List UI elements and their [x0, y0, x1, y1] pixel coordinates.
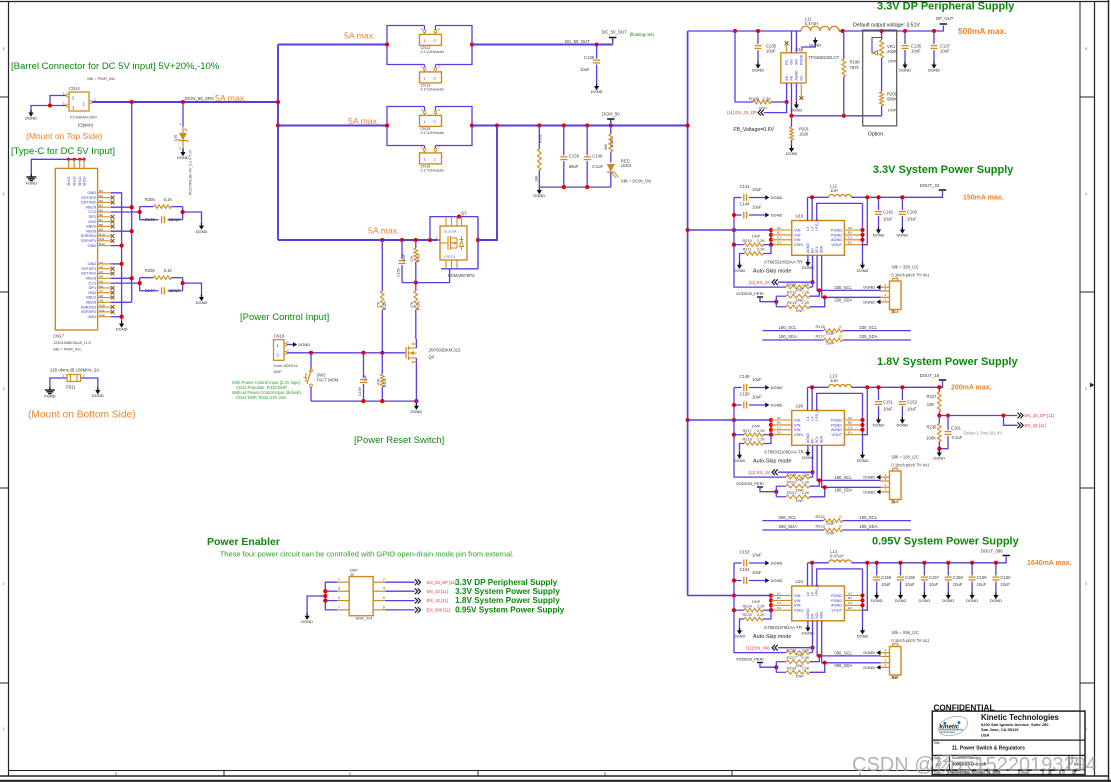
- wire LX risers: [808, 563, 813, 586]
- svg-text:0.1inch pitch TH 4x1: 0.1inch pitch TH 4x1: [891, 638, 930, 643]
- svg-text:180_SCL: 180_SCL: [779, 325, 798, 330]
- ground DGND at Q4: [414, 406, 419, 410]
- ground DGND at C156: [898, 595, 903, 599]
- svg-text:0.47uH: 0.47uH: [805, 21, 819, 26]
- ground DGND at J10 pin1: [876, 665, 880, 670]
- junction: [769, 593, 773, 597]
- junction: [595, 42, 599, 46]
- capacitor C161: [939, 416, 962, 449]
- svg-text:D1: D1: [777, 606, 781, 610]
- capacitor C158: [945, 563, 964, 595]
- svg-text:0.47uH: 0.47uH: [830, 554, 844, 559]
- junction: [865, 385, 869, 389]
- wire header bracket bottom: [387, 126, 472, 146]
- wire AGND pin down: [807, 621, 809, 628]
- junction: [860, 603, 864, 607]
- resistor R212: [776, 290, 819, 303]
- ground DGND at C155: [874, 595, 879, 599]
- svg-text:DGND: DGND: [734, 634, 746, 639]
- svg-text:DGND: DGND: [752, 68, 764, 73]
- svg-text:6200 San Ignacio Avenue, Suite: 6200 San Ignacio Avenue, Suite 250: [981, 722, 1049, 727]
- resistor R228: [776, 663, 824, 679]
- connector CN18: [274, 333, 298, 374]
- ground DGND under R225: [737, 630, 742, 634]
- junction: [732, 608, 736, 612]
- svg-text:2: 2: [383, 578, 385, 582]
- wire J9 output row 1: [386, 581, 415, 583]
- svg-text:3: 3: [885, 287, 887, 291]
- svg-text:1: 1: [885, 488, 887, 492]
- svg-text:EN_33 [11]: EN_33 [11]: [1025, 423, 1046, 428]
- svg-text:DNP: DNP: [752, 233, 761, 238]
- capacitor C150: [734, 392, 765, 409]
- ground DGND at J10 pin4: [876, 650, 880, 655]
- header CN16: [420, 145, 445, 172]
- wire header bracket bottom: [387, 45, 472, 65]
- svg-text:C3: C3: [848, 426, 852, 430]
- svg-text:1uF: 1uF: [363, 374, 367, 381]
- wire EN port to riser: [778, 647, 813, 649]
- svg-text:330_SDA: 330_SDA: [834, 298, 852, 303]
- svg-text:DNP: DNP: [796, 674, 805, 679]
- junction: [585, 123, 589, 127]
- svg-text:VIN: VIN: [790, 59, 794, 65]
- junction: [414, 281, 418, 285]
- svg-text:DP_OUT: DP_OUT: [936, 16, 954, 21]
- capacitor C136: [902, 31, 922, 65]
- svg-text:J10: J10: [891, 675, 898, 680]
- svg-text:10uF: 10uF: [766, 49, 776, 54]
- header J7: [881, 278, 902, 314]
- sheet border right outer: [1094, 2, 1096, 777]
- port EN_33 out: [1017, 422, 1020, 428]
- junction: [823, 661, 827, 665]
- svg-text:2: 2: [179, 147, 181, 151]
- svg-text:10uF: 10uF: [881, 582, 891, 587]
- resistor R199: [749, 96, 787, 110]
- svg-text:C138: C138: [584, 55, 595, 60]
- wire VIN pin tie: [770, 420, 772, 435]
- svg-text:5A max.: 5A max.: [215, 93, 246, 103]
- svg-text:10uF: 10uF: [752, 570, 762, 575]
- wire cap bank ground rail: [539, 186, 611, 188]
- svg-text:DGND: DGND: [942, 598, 954, 603]
- svg-text:4: 4: [1085, 192, 1087, 196]
- svg-text:These four power circuit can b: These four power circuit can be controll…: [220, 550, 514, 559]
- wire to DC_50_OUT tie: [612, 39, 614, 45]
- junction: [900, 385, 904, 389]
- resistor R210: [734, 233, 771, 246]
- junction: [860, 228, 864, 232]
- svg-text:[Power Reset Switch]: [Power Reset Switch]: [354, 435, 444, 446]
- wire net link 180_SDA to 330_SDA: [762, 333, 911, 345]
- svg-text:5: 5: [3, 47, 5, 51]
- junction: [860, 238, 864, 242]
- resistor R220: [776, 480, 819, 493]
- sheet border bottom edge: [0, 780, 1111, 782]
- net tie DCIN_50: [607, 118, 614, 120]
- ground DGND at C149: [765, 385, 769, 390]
- svg-text:R223: R223: [816, 523, 825, 528]
- svg-text:200K: 200K: [887, 49, 897, 54]
- svg-text:330_SCL: 330_SCL: [834, 285, 852, 290]
- svg-text:330_SDA: 330_SDA: [859, 334, 878, 339]
- svg-text:DGND: DGND: [177, 155, 189, 160]
- svg-text:Q4: Q4: [429, 355, 435, 360]
- svg-text:KT88331H6DAA-TR: KT88331H6DAA-TR: [764, 259, 802, 264]
- wire left bus: [734, 198, 786, 288]
- junction: [385, 123, 389, 127]
- svg-text:10uF: 10uF: [752, 394, 762, 399]
- resistor R227: [776, 655, 819, 668]
- port EN output 3: [415, 598, 418, 604]
- header CN13: [420, 64, 445, 91]
- svg-text:A1: A1: [777, 226, 781, 230]
- svg-text:C1: C1: [777, 601, 781, 605]
- right border arrow mark: [1090, 383, 1095, 388]
- svg-text:FB11: FB11: [66, 385, 76, 390]
- junction: [769, 423, 773, 427]
- wire FB net: [792, 115, 882, 117]
- svg-text:150mA max.: 150mA max.: [963, 195, 1004, 202]
- capacitor C151: [875, 387, 894, 419]
- pin names SHLD: [67, 176, 86, 186]
- ground DGND at CN14: [28, 113, 33, 117]
- wire bus1 left: [278, 44, 387, 46]
- svg-text:EN_33_DP [11]: EN_33_DP [11]: [1025, 413, 1054, 418]
- svg-text:EN: EN: [810, 248, 814, 253]
- svg-text:C147: C147: [145, 288, 156, 293]
- ground DGND at C160: [993, 595, 998, 599]
- svg-text:5A max.: 5A max.: [348, 116, 379, 126]
- svg-text:TACT MOM: TACT MOM: [316, 378, 338, 383]
- junction: [380, 238, 384, 242]
- ground DGND at C138: [594, 86, 599, 90]
- svg-text:5.1K: 5.1K: [164, 197, 173, 202]
- svg-text:C158: C158: [953, 575, 964, 580]
- svg-text:1: 1: [179, 122, 181, 126]
- svg-text:C159: C159: [977, 575, 988, 580]
- svg-text:LX: LX: [810, 591, 814, 596]
- capacitor C154: [734, 567, 765, 584]
- resistor R230: [410, 283, 421, 339]
- svg-text:R208: R208: [145, 268, 156, 273]
- wire CN18 pin1: [287, 344, 293, 346]
- sheet border bottom inner: [9, 770, 1081, 772]
- svg-text:47K: 47K: [410, 255, 414, 262]
- header J9 body: [349, 567, 373, 620]
- ground DGND under R218: [737, 455, 742, 459]
- junction: [769, 243, 773, 247]
- junction: [385, 42, 389, 46]
- svg-text:180_SDA: 180_SDA: [859, 524, 878, 529]
- svg-text:Silk = PWR_IN1: Silk = PWR_IN1: [53, 347, 81, 352]
- svg-text:220pF: 220pF: [169, 217, 181, 222]
- svg-text:A1: A1: [777, 416, 781, 420]
- svg-text:B3: B3: [848, 596, 852, 600]
- connector CN14: [63, 76, 115, 128]
- power tie VODD33_PERI: [757, 663, 776, 668]
- svg-text:500mA max.: 500mA max.: [958, 26, 1007, 36]
- svg-text:R227: R227: [787, 655, 796, 660]
- ground DGND at C159: [970, 595, 975, 599]
- svg-text:1: 1: [421, 108, 423, 112]
- svg-text:R237: R237: [926, 394, 937, 399]
- svg-text:B1: B1: [777, 596, 781, 600]
- header J9 pins: [337, 578, 386, 610]
- svg-text:LX: LX: [806, 226, 810, 231]
- svg-text:1: 1: [424, 38, 426, 43]
- junction: [898, 561, 902, 565]
- svg-text:220pF: 220pF: [169, 288, 181, 293]
- svg-text:U21: U21: [796, 579, 804, 584]
- svg-text:DGND: DGND: [863, 285, 875, 290]
- svg-text:5: 5: [1085, 47, 1087, 51]
- wire header bracket top: [387, 107, 472, 126]
- svg-text:180_SCL: 180_SCL: [834, 475, 852, 480]
- port EN output 1: [415, 579, 418, 585]
- svg-text:1: 1: [421, 27, 423, 31]
- svg-text:3: 3: [1085, 387, 1087, 391]
- capacitor C138: [580, 45, 600, 87]
- svg-text:R221: R221: [787, 490, 796, 495]
- svg-text:VOUT: VOUT: [831, 608, 842, 613]
- svg-text:2: 2: [438, 27, 440, 31]
- svg-text:330_SCL: 330_SCL: [859, 325, 878, 330]
- svg-text:EN_33_DP [11]: EN_33_DP [11]: [427, 580, 456, 585]
- wire PGND tie: [862, 569, 864, 630]
- junction: [769, 608, 773, 612]
- svg-text:technologies: technologies: [941, 730, 956, 734]
- ground DGND at C157: [922, 595, 927, 599]
- svg-text:FDMA6676PZ: FDMA6676PZ: [448, 273, 475, 278]
- wire left bus: [734, 563, 786, 653]
- wire PG_N: [817, 569, 863, 586]
- junction: [585, 185, 589, 189]
- svg-text:D76: D76: [174, 135, 178, 141]
- svg-text:1: 1: [3, 727, 5, 731]
- svg-text:U19: U19: [796, 214, 804, 219]
- junction: [774, 665, 778, 669]
- svg-text:10uF: 10uF: [907, 217, 917, 222]
- svg-text:10uF: 10uF: [977, 582, 987, 587]
- junction: [769, 428, 773, 432]
- junction: [130, 205, 134, 209]
- svg-text:DGND: DGND: [771, 561, 783, 566]
- wire LX risers: [808, 197, 813, 220]
- svg-text:CSDN @杨云15220193294: CSDN @杨云15220193294: [852, 753, 1097, 776]
- U18 body: [781, 47, 840, 83]
- wire bus2 right: [472, 125, 688, 127]
- capacitor C139: [560, 126, 579, 188]
- svg-text:11. Power Switch & Regulators: 11. Power Switch & Regulators: [952, 746, 1025, 752]
- svg-text:Auto-Skip mode: Auto-Skip mode: [753, 269, 791, 275]
- junction: [810, 561, 814, 565]
- resistor R226 at EN: [786, 648, 813, 658]
- port EN_33_DP out: [1017, 413, 1020, 419]
- svg-text:EN_18 [11]: EN_18 [11]: [427, 598, 448, 603]
- capacitor C157: [921, 563, 940, 595]
- junction: [860, 233, 864, 237]
- svg-text:096_SDA: 096_SDA: [779, 524, 798, 529]
- svg-text:Silk = PWR_IN2: Silk = PWR_IN2: [87, 76, 115, 81]
- svg-text:LED2: LED2: [621, 163, 632, 168]
- svg-text:SW: SW: [795, 59, 799, 65]
- svg-text:Silk = 096_I2C: Silk = 096_I2C: [891, 630, 918, 635]
- header CN12: [420, 27, 445, 54]
- svg-text:096_SCL: 096_SCL: [779, 515, 798, 520]
- svg-text:SDA: SDA: [820, 435, 824, 443]
- svg-text:DNP: DNP: [888, 59, 897, 64]
- svg-text:[11] EN_33: [11] EN_33: [749, 280, 771, 285]
- wire VIN branch to R199: [735, 31, 753, 102]
- junction: [769, 228, 773, 232]
- junction: [817, 654, 821, 658]
- svg-text:SHLD: SHLD: [73, 176, 77, 186]
- junction: [817, 478, 821, 482]
- junction: [903, 29, 907, 33]
- capacitor C158 at Q3 gate: [397, 240, 406, 283]
- svg-text:DGND: DGND: [533, 193, 545, 198]
- svg-text:VODD33_PERI: VODD33_PERI: [736, 481, 764, 486]
- ground DGND at PGND: [860, 265, 865, 269]
- wire VBUS bus: [111, 102, 132, 302]
- net tie DOUT_18: [939, 379, 946, 381]
- junction: [361, 351, 365, 355]
- wire net link 180_SCL to 330_SCL: [762, 324, 911, 336]
- svg-text:0.1inch pitch TH 4x1: 0.1inch pitch TH 4x1: [891, 462, 930, 467]
- svg-text:2.2K: 2.2K: [757, 603, 765, 608]
- svg-text:2.2K: 2.2K: [802, 300, 810, 305]
- junction: [67, 158, 70, 161]
- svg-text:3: 3: [3, 387, 5, 391]
- resistor R232: [377, 353, 387, 401]
- svg-text:096_SDA: 096_SDA: [834, 663, 852, 668]
- svg-text:EN_096 [11]: EN_096 [11]: [427, 608, 451, 613]
- svg-text:NC: NC: [800, 75, 804, 81]
- junction: [457, 215, 461, 219]
- svg-text:12401548E4#2A_I1.6: 12401548E4#2A_I1.6: [53, 340, 91, 345]
- wire VODD tie vertical: [775, 662, 777, 673]
- svg-text:DGND: DGND: [771, 578, 783, 583]
- junction: [130, 229, 134, 233]
- title block dividers: [932, 739, 1085, 741]
- junction: [323, 599, 327, 603]
- junction: [769, 603, 773, 607]
- svg-text:1: 1: [424, 119, 426, 124]
- svg-text:10uF: 10uF: [752, 377, 762, 382]
- svg-text:2: 2: [885, 293, 887, 297]
- wire VODD tie vertical: [775, 296, 777, 307]
- svg-text:PDZVTR6.2B / 6V_6.2 V-7.0V: PDZVTR6.2B / 6V_6.2 V-7.0V: [189, 149, 193, 195]
- svg-text:DGND: DGND: [809, 42, 821, 47]
- svg-text:10uF: 10uF: [1000, 582, 1010, 587]
- svg-text:2: 2: [83, 374, 85, 378]
- svg-text:DGND: DGND: [734, 458, 746, 463]
- wire PG_N: [817, 393, 863, 410]
- wire VOUT riser: [863, 197, 868, 244]
- svg-text:B3: B3: [848, 421, 852, 425]
- svg-text:PJ-036AH-SMT: PJ-036AH-SMT: [70, 115, 98, 120]
- wire J9 left tie: [307, 582, 337, 616]
- capacitor C159: [969, 563, 988, 595]
- junction: [865, 195, 869, 199]
- ground DGND at AGND pin: [805, 452, 810, 456]
- svg-text:B: B: [604, 772, 606, 776]
- wire LX risers: [808, 387, 813, 410]
- svg-text:Auto-Skip mode: Auto-Skip mode: [753, 459, 791, 465]
- junction: [876, 195, 880, 199]
- wire VOUT riser: [863, 563, 868, 610]
- capacitor C160: [992, 563, 1011, 595]
- ground DGND at J8 pin1: [876, 490, 880, 495]
- svg-text:1: 1: [338, 578, 340, 582]
- svg-text:C143: C143: [145, 217, 156, 222]
- no-connect on U18 NC: [799, 96, 803, 100]
- svg-text:C142: C142: [883, 210, 894, 215]
- wire left bus: [734, 388, 786, 478]
- sheet border bottom outer: [0, 775, 1109, 777]
- junction: [900, 195, 904, 199]
- junction: [937, 447, 941, 451]
- svg-text:VOUT: VOUT: [831, 432, 842, 437]
- svg-text:2.2K: 2.2K: [802, 480, 810, 485]
- ground DGND at C151: [876, 420, 881, 424]
- wire EN port to riser: [778, 471, 813, 473]
- svg-text:DGND: DGND: [895, 598, 907, 603]
- ground DGND at C141: [765, 195, 769, 200]
- svg-text:CN17: CN17: [53, 334, 65, 339]
- ferrite bead FB11: [50, 374, 98, 391]
- svg-text:0.95V System Power Supply: 0.95V System Power Supply: [455, 606, 565, 615]
- svg-text:FGND: FGND: [44, 394, 55, 399]
- svg-text:0.1"x2Header: 0.1"x2Header: [421, 130, 445, 135]
- junction: [120, 244, 124, 248]
- junction: [823, 485, 827, 489]
- svg-text:E3: E3: [848, 431, 852, 435]
- svg-text:GND: GND: [88, 314, 97, 319]
- ground DGND at C144: [765, 213, 769, 218]
- junction: [414, 399, 418, 403]
- junction: [130, 100, 134, 104]
- wire net link 096_SCL to 180_SCL: [762, 514, 911, 526]
- junction: [686, 418, 690, 422]
- capacitor C137: [931, 31, 951, 65]
- svg-text:SDA: SDA: [820, 611, 824, 619]
- svg-text:Delay=1.7ms @1.4V: Delay=1.7ms @1.4V: [964, 430, 1003, 435]
- resistor R231: [410, 240, 421, 283]
- svg-text:C144: C144: [740, 202, 751, 207]
- ground DGND at J7 pin1: [876, 300, 880, 305]
- wire DCIN_50_SRC main bus: [92, 101, 278, 103]
- wire SDA: [822, 445, 881, 487]
- svg-text:200mA max.: 200mA max.: [951, 385, 992, 392]
- svg-text:1640mA max.: 1640mA max.: [1027, 560, 1072, 567]
- svg-text:Default output voltage: 3.51V: Default output voltage: 3.51V: [853, 23, 920, 29]
- junction: [120, 262, 124, 266]
- net tie DC_50_OUT: [609, 37, 616, 39]
- svg-text:(Mount on Bottom Side): (Mount on Bottom Side): [28, 410, 136, 421]
- svg-text:DGND: DGND: [791, 108, 803, 113]
- U20 body: [792, 404, 845, 446]
- power tie VODD33_PERI: [757, 487, 776, 492]
- svg-text:DGND: DGND: [771, 403, 783, 408]
- ground DGND at PGND: [860, 630, 865, 634]
- ground DGND at C135: [755, 65, 760, 69]
- svg-text:DGND: DGND: [771, 213, 783, 218]
- junction: [414, 238, 418, 242]
- svg-text:2.2K: 2.2K: [757, 428, 765, 433]
